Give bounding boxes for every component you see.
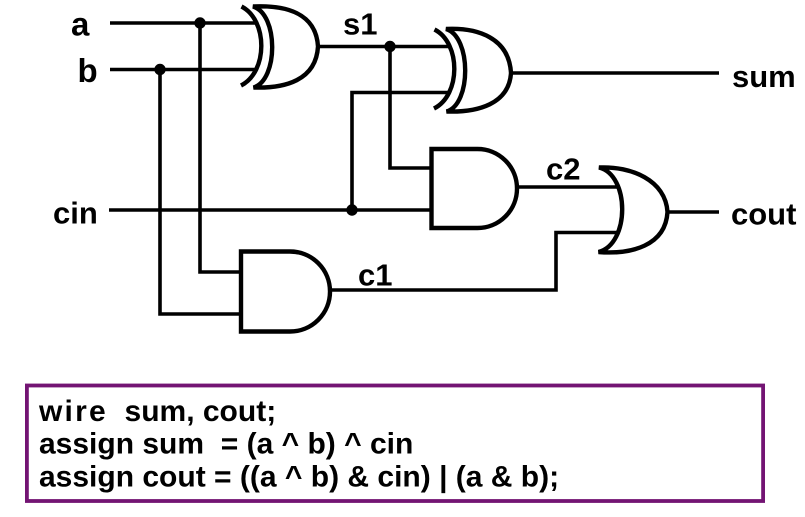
and gate U3 (s1&cin=c2) [432, 149, 518, 228]
svg-text:wire sum, cout;: wire sum, cout; [38, 395, 276, 428]
svg-text:c1: c1 [358, 258, 392, 293]
wire a branch to AND c1 top input [200, 23, 242, 272]
svg-text:s1: s1 [343, 6, 377, 41]
wire b branch to AND c1 bottom input [160, 70, 242, 315]
junction on wire cin [346, 204, 357, 215]
svg-text:assign sum = (a ^ b) ^ cin: assign sum = (a ^ b) ^ cin [39, 428, 413, 461]
junction on wire a [194, 17, 205, 28]
wire s1 branch to AND c2 top input [390, 47, 433, 169]
svg-text:c2: c2 [546, 152, 580, 187]
svg-text:cin: cin [53, 196, 98, 231]
svg-text:a: a [71, 6, 90, 43]
code box border [27, 386, 763, 502]
xor gate U1 (a^b=s1) [241, 6, 318, 87]
svg-text:b: b [78, 52, 98, 89]
svg-text:assign cout = ((a ^ b) & cin): assign cout = ((a ^ b) & cin) | (a & b); [39, 460, 559, 493]
xor gate U2 (s1^cin=sum) [434, 29, 511, 112]
wire cout output [667, 210, 719, 214]
wire sum output [511, 71, 719, 75]
wire c2 net [517, 185, 620, 189]
wire a input [110, 21, 255, 25]
junction on net s1 [384, 41, 395, 52]
junction on wire b [154, 64, 165, 75]
svg-text:cout: cout [731, 197, 796, 232]
wire c1 net to OR bottom input [329, 233, 620, 291]
wire cin input [109, 208, 433, 212]
and gate U4 (a&b=c1) [241, 252, 330, 332]
wire cin branch to XOR U2 bottom input [352, 93, 448, 211]
or gate U5 (c2|c1=cout) [599, 167, 668, 252]
wire s1 net [318, 45, 449, 49]
wire b input [110, 68, 255, 72]
svg-text:sum: sum [732, 59, 796, 94]
